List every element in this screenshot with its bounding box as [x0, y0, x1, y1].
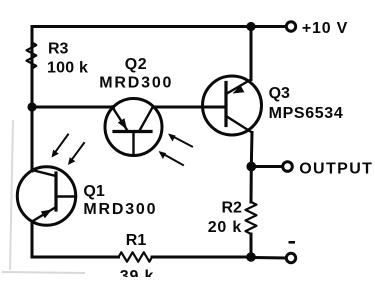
svg-text:20 k: 20 k — [208, 219, 242, 236]
svg-text:Q3: Q3 — [269, 85, 290, 102]
light arrows into Q2 — [159, 134, 193, 166]
scan smudge bottom edge — [2, 272, 85, 273]
svg-text:Q2: Q2 — [125, 56, 148, 73]
wire bottom rail — [152, 256, 251, 259]
svg-text:MPS6534: MPS6534 — [269, 105, 344, 122]
wire to output terminal — [251, 165, 282, 168]
phototransistor Q1 — [17, 167, 76, 225]
svg-text:39 k: 39 k — [120, 268, 154, 277]
svg-text:Q1: Q1 — [83, 183, 104, 200]
transistor Q3 — [203, 76, 262, 135]
resistor R2 — [246, 202, 257, 234]
terminal OUTPUT — [283, 162, 293, 172]
terminal +10V — [286, 22, 295, 31]
terminal minus — [286, 253, 295, 262]
svg-text:R1: R1 — [126, 232, 147, 249]
svg-text:+10 V: +10 V — [302, 20, 348, 37]
node top junction — [246, 22, 255, 31]
wire Q2 collector to Q3 base — [154, 106, 226, 109]
phototransistor Q2 — [105, 99, 162, 156]
scan smudge left edge — [10, 120, 13, 270]
wire left rail to Q1 — [31, 69, 34, 172]
svg-text:R2: R2 — [222, 199, 243, 216]
svg-text:OUTPUT: OUTPUT — [299, 160, 373, 177]
node A junction left rail — [27, 102, 36, 111]
node bottom junction — [246, 252, 256, 262]
svg-text:100 k: 100 k — [47, 60, 88, 77]
resistor R3 — [27, 43, 37, 69]
label minus — [289, 241, 296, 244]
light arrows into Q1 — [52, 135, 85, 166]
wire to minus terminal — [251, 256, 286, 260]
svg-text:MRD300: MRD300 — [83, 201, 157, 218]
svg-text:R3: R3 — [48, 41, 69, 58]
svg-text:MRD300: MRD300 — [99, 75, 173, 92]
wire Q3 emitter to top rail — [250, 27, 253, 80]
wire Q1 emitter to bottom rail — [32, 222, 119, 258]
wire OUTPUT junction to R2 — [250, 167, 253, 203]
wire R2 to bottom junction — [250, 234, 253, 257]
wire top rail — [32, 27, 286, 69]
wire Q3 collector down — [250, 133, 254, 167]
resistor R1 — [119, 252, 153, 261]
node OUTPUT junction — [246, 162, 256, 172]
wire node A to Q2 — [32, 106, 114, 109]
